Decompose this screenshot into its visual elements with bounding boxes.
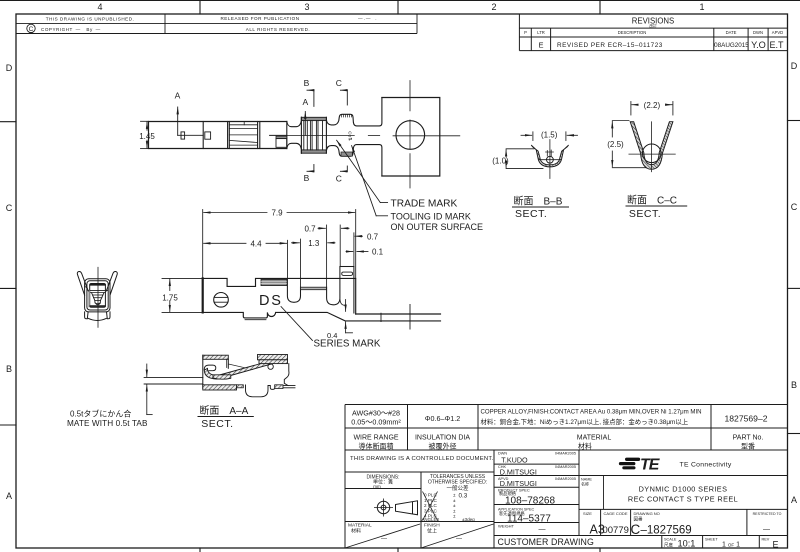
svg-text:DRAWING NO: DRAWING NO	[634, 511, 660, 516]
svg-text:LTR: LTR	[537, 30, 545, 35]
svg-text:APVD: APVD	[772, 30, 783, 35]
bottom row: customer drawing, scale, sheet, rev	[498, 537, 779, 549]
svg-text:E: E	[538, 40, 543, 49]
svg-text:A: A	[175, 91, 181, 101]
svg-text:4.4: 4.4	[250, 240, 262, 249]
B-B dim (1.0)	[506, 149, 543, 169]
svg-text:3 PLC: 3 PLC	[424, 508, 437, 513]
section A-A title	[199, 404, 248, 430]
B-B centerlines	[549, 140, 551, 179]
svg-text:REVISED PER ECR–15–011723: REVISED PER ECR–15–011723	[557, 42, 663, 49]
svg-text:材料: 材料	[351, 528, 361, 535]
zone tick marks right	[788, 121, 800, 434]
dim 0.7 right	[354, 233, 363, 267]
svg-text:2: 2	[491, 2, 496, 12]
web band	[301, 287, 327, 290]
svg-text:MATE WITH 0.5t TAB: MATE WITH 0.5t TAB	[67, 419, 148, 428]
svg-text:C: C	[29, 26, 34, 33]
section C-C title	[627, 193, 677, 220]
svg-text:0.7: 0.7	[367, 232, 379, 241]
B-B wire	[547, 156, 554, 163]
svg-text:10:1: 10:1	[678, 539, 696, 549]
A-A contact pad	[213, 375, 231, 379]
svg-text:DWN: DWN	[753, 30, 763, 35]
revisions column headers	[524, 30, 783, 35]
SECTION A-A view	[144, 355, 295, 415]
A-A top wall left	[203, 355, 229, 359]
VIEW 2: contact plan view	[162, 209, 441, 341]
copyright strip text	[41, 16, 378, 33]
material finish cells	[345, 524, 494, 548]
svg-text:Φ0.6–Φ1.2: Φ0.6–Φ1.2	[425, 414, 460, 423]
svg-text:RELEASED FOR PUBLICATION: RELEASED FOR PUBLICATION	[220, 16, 299, 21]
svg-text:D.MITSUGI: D.MITSUGI	[500, 467, 537, 476]
svg-text:2 PLC: 2 PLC	[424, 503, 437, 508]
svg-text:DS: DS	[259, 293, 283, 309]
svg-text:B: B	[304, 173, 310, 183]
dim 0.7 upper	[318, 225, 349, 287]
series mark leader	[281, 307, 313, 341]
svg-text:COPPER ALLOY,FINISH:CONTACT AR: COPPER ALLOY,FINISH:CONTACT AREA Au 0.38…	[481, 409, 702, 416]
svg-text:PART No.: PART No.	[733, 435, 764, 442]
copyright symbol	[27, 24, 35, 32]
svg-text:DATE: DATE	[726, 30, 737, 35]
svg-text:(1.0): (1.0)	[492, 156, 509, 165]
SECTION C-C view	[607, 101, 675, 172]
svg-text:–1827569: –1827569	[641, 524, 692, 536]
signature cells	[498, 452, 576, 534]
svg-text:一般公差: 一般公差	[446, 484, 469, 492]
svg-text:ALL RIGHTS RESERVED.: ALL RIGHTS RESERVED.	[246, 27, 310, 32]
B-B dim (1.5)	[521, 132, 578, 141]
svg-text:Y.O: Y.O	[751, 40, 766, 50]
svg-text:mm: mm	[373, 484, 381, 489]
svg-text:C: C	[336, 173, 342, 183]
copyright strip box	[16, 14, 417, 34]
svg-text:C: C	[336, 78, 342, 88]
carrier seam	[380, 313, 382, 321]
svg-text:REC CONTACT S TYPE REEL: REC CONTACT S TYPE REEL	[628, 495, 738, 504]
A-A bottom notches	[246, 385, 275, 397]
mating tab lines	[144, 376, 203, 378]
svg-text:CAGE CODE: CAGE CODE	[603, 511, 627, 516]
front view spring funnel	[87, 289, 108, 291]
svg-text:SECT.: SECT.	[515, 208, 547, 220]
svg-text:THIS DRAWING IS UNPUBLISHED: THIS DRAWING IS UNPUBLISHED.	[46, 17, 135, 22]
SECTION B-B view	[492, 131, 577, 179]
svg-text:SECT.: SECT.	[629, 208, 661, 220]
brass dimple	[214, 293, 229, 308]
tolerance cell	[422, 474, 488, 522]
section B cut markers	[307, 90, 314, 171]
svg-text:導体断面積: 導体断面積	[359, 442, 394, 451]
svg-text:(2.2): (2.2)	[644, 101, 661, 110]
svg-text:C: C	[6, 203, 13, 213]
title block row2 headers	[353, 435, 763, 451]
contact body outline	[149, 122, 287, 149]
A-A right edge profile	[284, 364, 289, 386]
TRADE MARK label	[391, 199, 484, 233]
size cage drawing-no cells	[583, 511, 782, 537]
svg-text:1.3: 1.3	[308, 239, 320, 248]
svg-text:改訂: 改訂	[649, 24, 657, 29]
svg-text:WEIGHT: WEIGHT	[498, 523, 515, 528]
A-A spring fold hook	[204, 365, 216, 371]
svg-text:尺度: 尺度	[664, 542, 673, 549]
lance window	[181, 132, 185, 139]
internal partitions	[202, 122, 204, 149]
svg-text:E.T: E.T	[769, 40, 784, 50]
svg-text:1: 1	[699, 2, 704, 12]
wire barrel serrations	[229, 122, 257, 146]
sheet outer trim line	[0, 0, 800, 2]
section C cut markers	[340, 90, 347, 171]
svg-text:3: 3	[304, 2, 309, 12]
svg-text:SCALE: SCALE	[664, 538, 677, 542]
pilot hole	[396, 121, 425, 150]
title block row1 values	[351, 408, 768, 426]
svg-text:型番: 型番	[741, 442, 755, 451]
svg-text:D: D	[791, 61, 798, 71]
svg-text:DYNMIC D1000 SERIES: DYNMIC D1000 SERIES	[639, 484, 728, 493]
svg-text:C: C	[791, 202, 798, 212]
svg-text:A: A	[6, 491, 12, 501]
svg-text:0.5tタブにかん合: 0.5tタブにかん合	[70, 409, 131, 419]
svg-text:1 OF 1: 1 OF 1	[722, 541, 740, 548]
svg-text:RESTRICTED TO: RESTRICTED TO	[753, 512, 782, 516]
VIEW 3: front (mating face) view	[77, 267, 117, 327]
revision row E	[538, 40, 784, 50]
svg-text:SHEET: SHEET	[705, 538, 718, 542]
relief slot	[342, 272, 353, 275]
TE logo	[619, 457, 661, 474]
svg-text:1 PLC: 1 PLC	[424, 498, 437, 503]
svg-text:COPYRIGHT — By —: COPYRIGHT — By —	[41, 27, 101, 32]
name cell	[581, 478, 738, 504]
svg-text:WIRE RANGE: WIRE RANGE	[353, 435, 398, 442]
svg-text:04MAR2005: 04MAR2005	[555, 452, 576, 456]
bell mouth knurl ticks	[342, 114, 352, 117]
bell mouth profile top	[326, 98, 382, 126]
svg-text:断面 A–A: 断面 A–A	[199, 404, 248, 417]
neck S-profile left	[287, 117, 302, 126]
svg-text:⊙o⇅: ⊙o⇅	[348, 131, 353, 141]
dim 1.3	[292, 239, 336, 287]
svg-text:断面 C–C: 断面 C–C	[627, 193, 677, 206]
dim 7.9	[203, 210, 356, 279]
svg-text:C: C	[631, 522, 641, 537]
leader to TRADE MARK	[337, 140, 388, 216]
front view wings	[77, 271, 88, 295]
svg-text:P: P	[524, 30, 527, 35]
seam box	[205, 132, 211, 139]
zone tick marks bottom	[200, 548, 600, 552]
VIEW 1: contact side view	[139, 78, 460, 216]
svg-text:TE Connectivity: TE Connectivity	[680, 462, 732, 469]
bend tab strip	[340, 266, 354, 268]
C-C centerlines	[650, 122, 652, 172]
svg-text:7.9: 7.9	[271, 209, 283, 218]
title block grid	[345, 405, 788, 549]
svg-text:04MAR2005: 04MAR2005	[555, 477, 576, 481]
svg-text:ON OUTER SURFACE: ON OUTER SURFACE	[391, 222, 484, 232]
zone tick marks left	[0, 122, 16, 425]
svg-text:REV: REV	[762, 538, 770, 542]
svg-text:—: —	[456, 536, 462, 542]
svg-text:名称: 名称	[581, 481, 589, 487]
A-A carrier cut lines	[283, 385, 295, 387]
svg-text:(2.5): (2.5)	[607, 140, 624, 149]
dimensions cell	[366, 474, 399, 489]
dim 0.1	[346, 251, 368, 253]
front view legs	[85, 312, 89, 319]
svg-text:00779: 00779	[602, 525, 628, 536]
svg-text:D: D	[6, 63, 13, 73]
svg-text:B: B	[6, 364, 12, 374]
svg-text:04MAR2005: 04MAR2005	[555, 465, 576, 469]
svg-text:CUSTOMER DRAWING: CUSTOMER DRAWING	[498, 537, 594, 547]
dim 0.4	[346, 300, 353, 333]
svg-text:A: A	[302, 97, 308, 107]
svg-text:1.75: 1.75	[162, 294, 178, 303]
svg-text:E: E	[773, 539, 779, 549]
C-C dim (2.2)	[631, 102, 673, 116]
svg-text:—: —	[539, 526, 546, 533]
plan view outline	[203, 278, 356, 314]
revisions table grid	[519, 14, 787, 51]
svg-text:材料: 材料	[578, 442, 592, 451]
A-A top wall right (double)	[258, 355, 288, 360]
svg-text:0.1: 0.1	[372, 248, 384, 257]
svg-text:INSULATION DIA: INSULATION DIA	[415, 435, 470, 442]
svg-text:T.KUDO: T.KUDO	[501, 455, 528, 464]
svg-text:—: —	[381, 536, 387, 542]
C-C dim (2.5)	[612, 121, 648, 168]
svg-text:SECT.: SECT.	[201, 418, 233, 430]
carrier tick long	[409, 304, 411, 329]
svg-text:±3deg: ±3deg	[462, 517, 475, 522]
svg-text:TE: TE	[640, 457, 661, 474]
svg-text:B: B	[791, 380, 797, 390]
svg-text:THIS DRAWING IS A CONTROLL: THIS DRAWING IS A CONTROLLED DOCUMENT.	[350, 456, 494, 462]
svg-text:1827569–2: 1827569–2	[724, 413, 767, 423]
weld hatch block	[261, 279, 287, 285]
svg-text:OTHERWISE SPECIFIED:: OTHERWISE SPECIFIED:	[428, 480, 487, 486]
MATE WITH 0.5t TAB label	[67, 409, 148, 429]
svg-text:DESCRIPTION: DESCRIPTION	[618, 30, 647, 35]
svg-text:0.7: 0.7	[304, 225, 316, 234]
tab thickness arrows	[147, 364, 152, 415]
svg-text:(1.5): (1.5)	[541, 131, 558, 140]
svg-text:1.45: 1.45	[139, 132, 155, 141]
svg-text:0.05〜0.09mm²: 0.05〜0.09mm²	[351, 417, 401, 426]
svg-text:TRADE MARK: TRADE MARK	[391, 199, 458, 210]
svg-text:ANGLES: ANGLES	[422, 517, 440, 522]
svg-text:A: A	[791, 495, 797, 505]
svg-text:0.3: 0.3	[459, 492, 468, 499]
svg-text:08AUG2015: 08AUG2015	[714, 42, 749, 49]
svg-text:AWG#30〜#28: AWG#30〜#28	[352, 408, 400, 417]
svg-text:SIZE: SIZE	[583, 511, 592, 516]
A-A bottom wall	[203, 385, 237, 390]
svg-text:—: —	[763, 526, 770, 533]
svg-text:SERIES MARK: SERIES MARK	[314, 339, 381, 350]
svg-text:断面 B–B: 断面 B–B	[514, 194, 563, 207]
B-B crimp walls	[531, 145, 568, 167]
dim 1.45	[141, 121, 149, 148]
svg-text:B: B	[304, 78, 310, 88]
section B-B title	[514, 194, 563, 220]
svg-text:TOOLING ID MARK: TOOLING ID MARK	[391, 212, 471, 222]
A-A spring arm	[204, 356, 287, 379]
section A cut marker left	[178, 107, 204, 135]
bell mouth profile bottom	[326, 145, 382, 176]
svg-text:108–78268: 108–78268	[505, 496, 555, 507]
slot 2	[327, 267, 340, 305]
carrier strip pad	[382, 98, 440, 177]
svg-text:—.— .: —.— .	[358, 16, 378, 21]
dim 4.4	[204, 240, 288, 279]
leader to TOOLING ID MARK	[352, 146, 377, 216]
dim 1.75	[162, 278, 203, 312]
svg-text:材料：銅合金,下地：Niめっき1.27μm以上, 接点部：金: 材料：銅合金,下地：Niめっき1.27μm以上, 接点部：金めっき0.38μm以…	[481, 417, 689, 426]
third angle projection symbol	[374, 499, 418, 517]
C-C crimp walls	[630, 122, 673, 170]
insulation crimp barrel	[301, 117, 326, 120]
svg-text:4: 4	[97, 2, 102, 12]
A-A spring tip curl	[268, 364, 273, 369]
C-C wire	[642, 144, 661, 163]
svg-text:0 PLC: 0 PLC	[424, 493, 437, 498]
zone tick marks top	[200, 0, 600, 14]
svg-text:仗上: 仗上	[427, 528, 437, 535]
svg-text:MATERIAL: MATERIAL	[577, 435, 612, 442]
front view bottom arc	[88, 318, 106, 320]
slot 1	[287, 278, 300, 302]
section A cut marker middle	[304, 112, 306, 136]
svg-text:被覆外径: 被覆外径	[429, 442, 457, 451]
transition step	[270, 134, 287, 136]
centerlines	[270, 81, 460, 189]
